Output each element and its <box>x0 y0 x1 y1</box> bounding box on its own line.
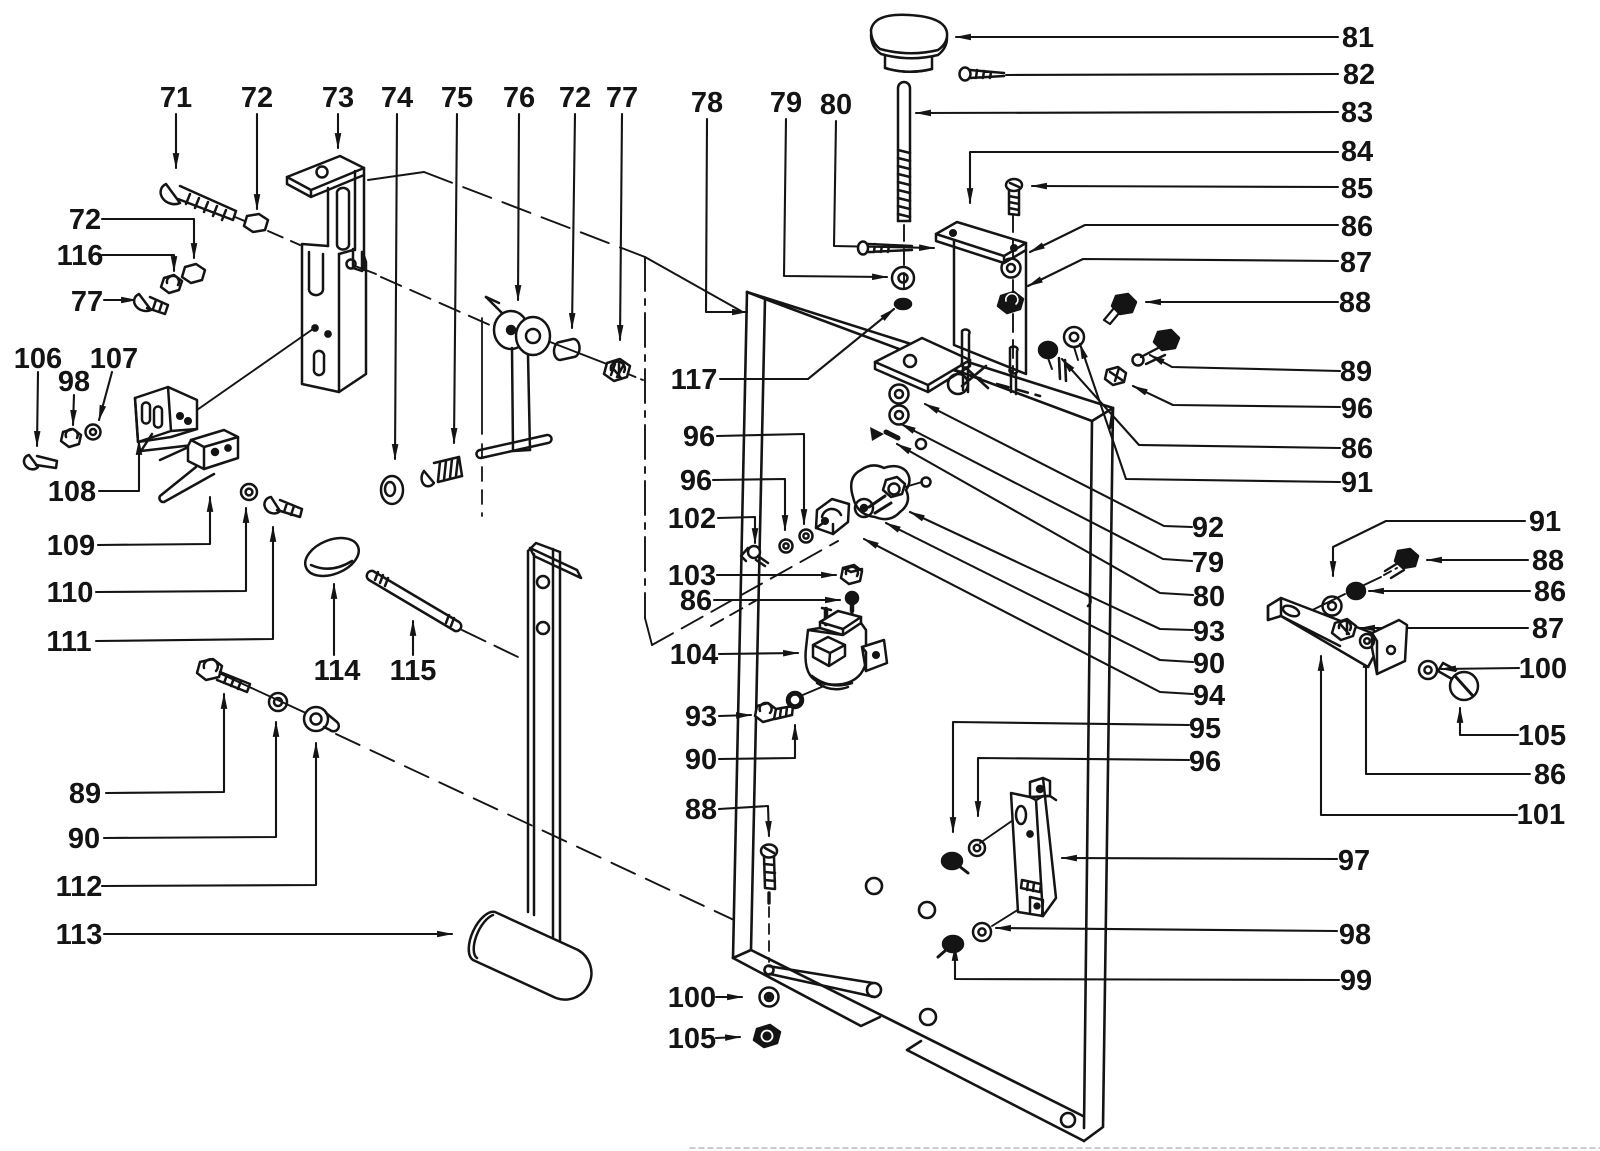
leader 81 <box>956 36 1338 38</box>
panel right edge nick <box>1086 594 1091 606</box>
nut 77 top <box>604 359 630 381</box>
wire 76 flag tail dashed <box>481 444 483 516</box>
bracket 108 <box>135 387 197 460</box>
svg-text:112: 112 <box>56 871 103 903</box>
screw 88 mid <box>761 845 777 963</box>
leader 89 r <box>1150 355 1340 371</box>
bolt 89 left <box>197 659 250 692</box>
wire axis 77 dash <box>628 374 643 380</box>
washer 96 target b <box>969 840 985 856</box>
washer 96 target <box>1064 327 1084 347</box>
wire axis 96 to plate97 <box>980 816 1019 843</box>
panel 78 right edge inner <box>1084 421 1092 1128</box>
leader 110 <box>96 508 246 592</box>
svg-text:105: 105 <box>1518 720 1566 752</box>
svg-text:86: 86 <box>680 585 712 617</box>
svg-text:95: 95 <box>1189 713 1221 745</box>
panel 78 bottom corner <box>733 950 751 958</box>
nut 87 fr <box>1332 619 1356 640</box>
panel 78 slot end circle <box>765 966 774 975</box>
svg-text:102: 102 <box>668 503 716 535</box>
svg-text:89: 89 <box>69 778 101 810</box>
leader 85 <box>1032 186 1338 187</box>
panel top edge tab <box>1059 358 1066 381</box>
svg-text:111: 111 <box>46 626 91 658</box>
leader 93 mr <box>910 512 1193 630</box>
wire axis 71 to 72 <box>235 217 247 222</box>
panel hole corner <box>1061 1113 1075 1127</box>
screw 102 <box>741 546 768 566</box>
washer small fr <box>1360 634 1374 648</box>
leg column <box>528 543 581 952</box>
panel 78 fold top line <box>751 950 1083 1116</box>
panel hole c <box>920 1009 936 1025</box>
leader 79 mr <box>901 424 1192 561</box>
svg-text:98: 98 <box>58 366 90 398</box>
svg-text:93: 93 <box>685 701 717 733</box>
svg-text:107: 107 <box>90 343 138 375</box>
panel 78 left edge outer <box>733 292 747 958</box>
leader 86 fr2 <box>1366 653 1530 774</box>
washer 98 target <box>973 923 991 941</box>
washer 90 left <box>269 693 287 711</box>
svg-text:83: 83 <box>1341 97 1373 129</box>
svg-text:101: 101 <box>1517 799 1565 831</box>
leader 72 left <box>102 219 194 258</box>
leader 84 <box>970 152 1338 203</box>
leader 90 left <box>104 722 276 838</box>
panel hole top <box>948 374 968 394</box>
wire axis 89-90-112 <box>219 673 308 714</box>
bolt 88 <box>1104 294 1136 324</box>
leader 88 fr <box>1427 559 1528 561</box>
wire axis 102 group dashed <box>711 600 757 626</box>
svg-text:109: 109 <box>47 530 95 562</box>
leader 87 fr <box>1360 627 1528 629</box>
svg-text:98: 98 <box>1339 919 1371 951</box>
leader 72 top <box>256 114 258 209</box>
screw 95 target <box>942 853 968 873</box>
leader 104 <box>719 653 798 654</box>
svg-text:96: 96 <box>1341 393 1373 425</box>
svg-text:88: 88 <box>1532 545 1564 577</box>
bracket 101 <box>1268 598 1407 674</box>
leader 92 <box>925 404 1192 527</box>
svg-text:88: 88 <box>685 794 717 826</box>
svg-text:110: 110 <box>47 577 94 609</box>
leader 107 <box>99 372 112 420</box>
wire axis 72 to bracket dashed <box>268 231 300 245</box>
svg-text:100: 100 <box>1519 653 1567 685</box>
leader 90 mr <box>886 523 1193 662</box>
leader 106 <box>37 372 38 446</box>
washer 86 fr <box>1347 583 1365 599</box>
wire plate97 to washer98 <box>992 901 1032 926</box>
wire axis 88fr dashed <box>1384 568 1397 575</box>
washer 74 <box>381 476 403 504</box>
washer 86 mid <box>846 592 858 604</box>
hex block <box>816 499 849 534</box>
panel 78 top edge inner <box>765 299 1092 421</box>
svg-text:114: 114 <box>314 655 361 687</box>
leader 82 <box>1006 74 1338 75</box>
svg-text:78: 78 <box>691 87 723 119</box>
nut 86 target <box>1039 342 1057 358</box>
knob 81 <box>871 15 947 72</box>
leader 89 left <box>106 694 224 793</box>
leader 91 r <box>1080 344 1340 482</box>
wire axis bracket101 <box>1290 577 1381 621</box>
nut 116 <box>161 275 182 293</box>
svg-text:97: 97 <box>1338 845 1370 877</box>
leader 103 <box>717 574 836 576</box>
leader 109 <box>98 497 210 545</box>
rod 83 <box>898 82 910 221</box>
svg-text:96: 96 <box>683 421 715 453</box>
leader 96 mr <box>978 758 1189 816</box>
washer 96 mid1 <box>800 530 813 543</box>
svg-text:86: 86 <box>1341 211 1373 243</box>
nut 117 target <box>895 299 911 309</box>
wire roof to panel <box>645 257 741 311</box>
svg-text:86: 86 <box>1534 759 1566 791</box>
wire axis hole stub <box>355 266 376 274</box>
leader 86 r1 <box>1030 225 1338 252</box>
panel 78 bottom edge outer a <box>733 958 880 1026</box>
svg-text:99: 99 <box>1340 965 1372 997</box>
svg-text:115: 115 <box>390 655 437 687</box>
leader 91 fr <box>1333 521 1525 576</box>
wire screw 85 dashed axis <box>1012 214 1014 372</box>
screw 105 fr <box>1438 663 1478 700</box>
plate 117 <box>875 338 970 392</box>
svg-text:73: 73 <box>322 82 354 114</box>
wire axis bracket hole to 76 dashed <box>381 277 492 326</box>
washer 79 target <box>890 406 909 425</box>
svg-text:77: 77 <box>71 286 103 318</box>
svg-text:116: 116 <box>57 240 104 272</box>
leader 99 <box>955 946 1339 980</box>
washer 79 top <box>892 267 914 289</box>
switch 109 <box>159 430 238 502</box>
leader 73 <box>337 114 339 148</box>
leader 100 fr <box>1441 668 1519 669</box>
panel 78 corner fold <box>1092 408 1113 428</box>
svg-text:90: 90 <box>1193 648 1225 680</box>
screw 80 target <box>870 427 926 449</box>
leader 102 <box>718 517 755 543</box>
wire axis to cam dashed <box>652 541 838 645</box>
screw 71 <box>161 184 236 220</box>
panel 78 slot end circle2 <box>867 983 881 997</box>
leader 105 mid <box>716 1037 740 1038</box>
wire scan artifact line <box>690 1147 1600 1149</box>
svg-text:91: 91 <box>1529 506 1561 538</box>
leader 87 r1 <box>1028 259 1338 286</box>
leader 77 top <box>620 114 622 340</box>
washer 100 mid <box>760 988 779 1007</box>
leader 90 mid <box>719 725 795 759</box>
svg-text:91: 91 <box>1341 467 1373 499</box>
svg-text:84: 84 <box>1341 136 1373 168</box>
svg-text:81: 81 <box>1342 22 1374 54</box>
svg-text:85: 85 <box>1341 173 1373 205</box>
plate 97 <box>1011 778 1056 916</box>
wire axis 107 to bracket 73 <box>174 329 313 426</box>
panel 78 left edge inner <box>751 299 765 950</box>
washer 92 target <box>890 385 909 404</box>
svg-text:86: 86 <box>1534 576 1566 608</box>
bracket 84 <box>936 222 1026 394</box>
leader 72 top2 <box>572 114 575 328</box>
svg-text:74: 74 <box>381 82 413 114</box>
leader 96 mid2 <box>713 479 785 530</box>
wire 76 flag tail <box>481 318 483 434</box>
leader 105 fr <box>1460 708 1518 735</box>
svg-text:108: 108 <box>48 476 96 508</box>
leader 98 r <box>996 928 1337 931</box>
svg-text:79: 79 <box>1192 547 1224 579</box>
panel hole a <box>866 878 882 894</box>
leader 100 mid <box>716 996 742 998</box>
svg-text:72: 72 <box>241 82 273 114</box>
nut 96b target <box>1105 367 1126 385</box>
leader 97 <box>1062 858 1337 859</box>
svg-text:93: 93 <box>1193 616 1225 648</box>
screw 93 <box>755 703 793 722</box>
screw 85 <box>1006 179 1022 215</box>
leader 116 <box>102 255 174 271</box>
svg-text:90: 90 <box>685 744 717 776</box>
leader 71 <box>175 114 177 168</box>
foot cylinder 113 <box>469 912 592 1000</box>
svg-text:100: 100 <box>668 982 716 1014</box>
leader 79 top <box>784 119 887 277</box>
svg-text:80: 80 <box>1193 581 1225 613</box>
bracket 73 <box>287 156 366 392</box>
cam 94 <box>851 465 930 519</box>
screw 111 <box>264 497 302 517</box>
washer 91 fr <box>1323 597 1342 616</box>
bolt 88 fr <box>1385 549 1418 578</box>
leader 83 <box>916 112 1338 113</box>
leader 112 <box>102 743 316 886</box>
svg-text:71: 71 <box>160 82 192 114</box>
svg-text:72: 72 <box>559 82 591 114</box>
svg-text:92: 92 <box>1192 512 1224 544</box>
svg-text:106: 106 <box>14 343 62 375</box>
panel 78 right edge outer <box>1084 408 1113 1141</box>
panel hole b <box>919 902 935 918</box>
wire axis through 76 <box>545 340 612 366</box>
leader 115 <box>412 621 414 655</box>
washer 110 <box>241 484 257 500</box>
leader 113 <box>104 933 452 935</box>
svg-text:87: 87 <box>1532 613 1564 645</box>
knob 114 <box>300 531 365 584</box>
leader 88 mid <box>719 806 769 836</box>
leader 86 r2 <box>1062 359 1340 448</box>
wire axis 112 to leg dashed <box>336 734 734 920</box>
screw 82 <box>960 68 1005 81</box>
nut 87 <box>998 292 1023 313</box>
leader 77 left <box>104 299 136 301</box>
leader 86 fr1 <box>1369 590 1530 592</box>
svg-text:86: 86 <box>1341 433 1373 465</box>
svg-text:88: 88 <box>1339 287 1371 319</box>
washer 96 mid2 <box>780 540 793 553</box>
svg-text:80: 80 <box>820 89 852 121</box>
panel 78 top-left corner <box>747 292 765 299</box>
svg-text:82: 82 <box>1343 59 1375 91</box>
leader 76 <box>518 114 519 300</box>
svg-text:89: 89 <box>1340 356 1372 388</box>
screw 80 <box>858 242 912 255</box>
svg-text:76: 76 <box>503 82 535 114</box>
svg-text:117: 117 <box>671 364 718 396</box>
nut 105 mid <box>754 1025 780 1047</box>
leader 80 top <box>834 121 934 248</box>
leader 75 <box>454 114 457 443</box>
wire axis vertical dash-dot <box>644 257 646 618</box>
screw 75 spring <box>422 457 462 486</box>
svg-text:87: 87 <box>1340 247 1372 279</box>
panel 78 top edge outer <box>747 292 1113 408</box>
nut 72 top <box>244 214 268 232</box>
leader 117 <box>720 309 894 379</box>
spacer 72 top2 <box>554 339 580 360</box>
wire rod 83 lower dashed axis <box>903 225 905 297</box>
screw 99 <box>938 936 963 957</box>
leader 108 <box>99 440 139 491</box>
switch 104 <box>798 604 887 697</box>
washer 90 mid <box>787 692 803 708</box>
svg-text:113: 113 <box>56 919 103 951</box>
panel top band dashes <box>950 369 1040 396</box>
leader 86 mid <box>714 599 840 601</box>
svg-text:104: 104 <box>670 639 718 671</box>
washer 107 <box>86 425 101 440</box>
wire axis 115 to leg <box>462 630 520 658</box>
nut 103 <box>841 565 862 584</box>
svg-text:94: 94 <box>1193 680 1225 712</box>
wire axis bend <box>645 618 652 645</box>
pivot block 76 <box>476 297 551 458</box>
clamp 112 <box>304 707 339 731</box>
leader 96 r <box>1133 386 1340 407</box>
panel 78 bottom edge outer b <box>907 1041 1084 1141</box>
leader 96 mid1 <box>717 434 804 524</box>
svg-text:90: 90 <box>68 823 100 855</box>
wire roof dashed <box>424 172 645 257</box>
rod 115 <box>367 571 461 631</box>
leader 111 <box>96 527 273 641</box>
leader 74 <box>395 114 397 459</box>
leader 80 mr <box>897 444 1193 595</box>
leader 114 <box>333 584 335 655</box>
nut 98 left <box>61 429 81 447</box>
leader 88 r1 <box>1146 301 1338 303</box>
leader 95 mr <box>953 722 1189 832</box>
nut 72 left <box>182 264 205 283</box>
leader 94 mr <box>864 539 1193 694</box>
wire roof solid <box>368 172 424 180</box>
leader 78 <box>706 119 747 312</box>
svg-text:77: 77 <box>606 82 638 114</box>
svg-text:96: 96 <box>680 465 712 497</box>
svg-text:105: 105 <box>668 1023 716 1055</box>
washer 86 <box>1002 259 1021 278</box>
panel 78 slot bottom <box>768 966 875 997</box>
svg-text:75: 75 <box>441 82 473 114</box>
svg-text:96: 96 <box>1189 746 1221 778</box>
screw 77 left <box>134 294 168 314</box>
wire 96 stem <box>1074 347 1078 360</box>
leader 101 fr <box>1321 656 1517 815</box>
svg-text:79: 79 <box>770 87 802 119</box>
leader 98 left <box>73 395 74 425</box>
washer 100 fr <box>1419 661 1437 679</box>
wire 86 stem <box>1048 358 1052 369</box>
svg-text:72: 72 <box>69 204 101 236</box>
leader 93 mid <box>719 715 751 716</box>
screw 106 <box>24 455 57 469</box>
bolt 89 <box>1133 330 1180 366</box>
panel top band x-mark <box>962 366 988 388</box>
